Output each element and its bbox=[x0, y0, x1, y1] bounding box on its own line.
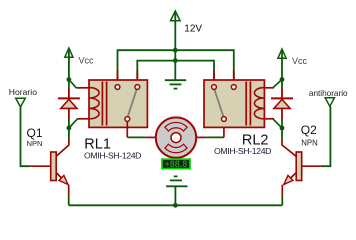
node: junction dot left bottom bbox=[67, 126, 72, 131]
svg-text:Vcc: Vcc bbox=[79, 56, 95, 66]
svg-text:12V: 12V bbox=[184, 23, 202, 34]
relay RL2 coil arcs bbox=[254, 88, 264, 119]
wire ground rail (lower) bbox=[137, 61, 214, 85]
relay RL2 contact pin circles bbox=[212, 85, 217, 90]
junction dot rail1 center bbox=[173, 48, 178, 53]
svg-text:+88.8: +88.8 bbox=[165, 159, 188, 169]
svg-text:Vcc: Vcc bbox=[292, 56, 308, 66]
node: junction dot right bottom bbox=[280, 126, 285, 131]
pin RL2 coil bottom bbox=[264, 118, 274, 120]
motor rpm display bbox=[162, 159, 190, 169]
wire center vertical 12V-to-ground bbox=[174, 50, 176, 80]
pin RL2 coil top bbox=[264, 87, 274, 89]
power terminal 12V bbox=[171, 11, 181, 50]
wire RL1 bottom contact to motor bbox=[126, 121, 128, 137]
svg-text:OMIH-SH-124D: OMIH-SH-124D bbox=[214, 146, 271, 156]
motor M1 bbox=[156, 117, 196, 157]
relay RL1 core lines bbox=[101, 82, 103, 126]
pin stub red RL1 top-left bbox=[117, 70, 119, 85]
node: junction dot bottom center bbox=[173, 203, 178, 208]
ground (top center) bbox=[165, 80, 186, 88]
wire RL2 coil bottom to right node bbox=[273, 119, 282, 128]
wire 12V rail (upper) bbox=[118, 50, 234, 85]
svg-text:Q2: Q2 bbox=[301, 123, 317, 137]
relay RL2 body bbox=[204, 80, 264, 127]
svg-text:Q1: Q1 bbox=[27, 126, 43, 140]
wire Horario to Q1 base bbox=[21, 107, 31, 166]
junction dot rail2 center bbox=[173, 58, 178, 63]
pin Q1 base bbox=[30, 165, 50, 167]
wire RL2 coil top to right node bbox=[273, 80, 282, 88]
pin Q2 base bbox=[302, 165, 321, 167]
ground (bottom, inverted) bbox=[166, 176, 187, 205]
diode D2 (right) bbox=[271, 80, 293, 129]
transistor Q2 bbox=[282, 128, 302, 196]
node: junction dot right top bbox=[280, 77, 285, 82]
wire Q1 emitter to bottom rail bbox=[68, 196, 70, 206]
wire bottom rail bbox=[69, 204, 283, 206]
input terminal antihorario bbox=[325, 98, 334, 107]
node: junction dot left top bbox=[67, 77, 72, 82]
power terminal Vcc (left) bbox=[65, 48, 73, 80]
relay RL2 core lines bbox=[245, 82, 247, 126]
svg-text:NPN: NPN bbox=[301, 139, 317, 148]
pin RL1 coil bottom bbox=[79, 118, 90, 120]
svg-text:NPN: NPN bbox=[27, 139, 43, 148]
wire motor to RL2 bottom contact bbox=[196, 136, 206, 138]
pin stub red RL2 top-right bbox=[233, 70, 235, 85]
diode D1 (left) bbox=[58, 80, 80, 129]
svg-text:antihorario: antihorario bbox=[309, 89, 348, 98]
transistor Q1 bbox=[51, 128, 69, 196]
pin motor left bbox=[146, 136, 156, 138]
pin RL1 coil top bbox=[79, 87, 90, 89]
input terminal Horario bbox=[16, 98, 26, 107]
relay RL1 switch arm bbox=[128, 90, 137, 117]
wire RL1 coil top to left node bbox=[69, 80, 80, 88]
pin stub red RL1 top-right bbox=[136, 70, 138, 85]
relay RL1 coil arcs bbox=[89, 88, 99, 119]
wire antihorario to Q2 base bbox=[321, 106, 331, 166]
svg-text:OMIH-SH-124D: OMIH-SH-124D bbox=[84, 150, 141, 160]
power terminal Vcc (right) bbox=[278, 49, 286, 80]
svg-text:Horario: Horario bbox=[9, 87, 37, 97]
relay RL1 contact pin circles bbox=[115, 85, 120, 90]
wire RL1 coil bottom to left node bbox=[69, 119, 80, 128]
relay RL1 body bbox=[89, 80, 147, 127]
relay RL2 switch arm bbox=[214, 90, 223, 117]
wire Q2 emitter to bottom rail bbox=[281, 196, 283, 206]
pin stub red RL2 top-left bbox=[213, 70, 215, 85]
